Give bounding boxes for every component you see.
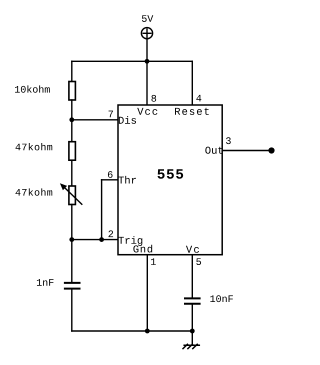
potentiometer R3 wiper arrow [60,183,82,204]
wire R3 to Trig node [71,205,73,240]
node Out terminal [268,147,274,153]
wire Out pin 3 [222,150,271,152]
wire top rail horizontal [72,60,193,62]
wire pin 1 stub [146,255,148,331]
wire Dis to pin 7 [72,119,118,121]
ground symbol [183,344,199,348]
capacitor C1 value label 1nF [37,279,54,286]
pin 1 name Gnd [133,245,152,253]
potentiometer R3 47kohm body [69,186,76,205]
wire pin 8 stub [146,61,148,105]
pin 7 number [109,111,113,118]
pin 5 number [196,258,201,265]
wire pin 5 stub to C2 [191,255,193,298]
resistor R1 value label 10kohm [15,85,50,92]
wire Thr branch vertical [101,180,103,240]
wire left rail top to R1 [71,61,73,81]
pin 3 number [226,137,231,144]
wire R2 to R3 [71,160,73,186]
wire Trig to pin 2 [72,239,118,241]
potentiometer R3 value label 47kohm [16,188,53,195]
wire Thr to pin 6 [102,179,118,181]
pin 4 name Reset [175,108,209,115]
pin 1 number [151,258,156,265]
resistor R1 10kohm body [69,82,76,101]
wire 5V to top rail [146,39,148,61]
junction node Dis [69,117,74,122]
resistor R2 47kohm body [69,142,76,161]
pin 2 name Trig [118,236,142,246]
wire R1 to Dis node and on to R2 [71,100,73,142]
junction Thr branch on Trig wire [99,237,104,242]
pin 8 name Vcc [137,108,157,115]
wire Trig node down to C1 [71,240,73,283]
junction top rail / Vcc [145,59,150,64]
pin 4 number [196,95,201,102]
pin 5 name Vc [186,246,199,253]
wire pin 4 stub [191,61,193,105]
wire bottom rail horizontal [72,330,193,332]
op-amp U1 label 555 [158,169,184,178]
pin 6 name Thr [118,176,136,184]
junction bottom rail / ground [190,329,195,334]
power label 5V [142,15,153,22]
pin 7 name Dis [119,116,136,124]
resistor R2 value label 47kohm [16,143,53,150]
junction bottom rail / Gnd pin 1 [145,329,150,334]
wire C1 to bottom rail [71,289,73,331]
op-amp U1 555 body [118,105,222,255]
capacitor C2 value label 10nF [210,295,233,302]
junction node Trig left rail [69,237,74,242]
capacitor C1 1nF plates [65,283,80,289]
wire C2 to bottom rail [191,304,193,331]
pin 3 name Out [205,147,222,154]
pin 6 number [108,171,113,178]
wire ground stub [191,331,193,345]
pin 8 number [151,95,156,102]
capacitor C2 10nF plates [185,298,200,303]
pin 2 number [109,230,114,237]
power supply V1 symbol [141,28,152,39]
